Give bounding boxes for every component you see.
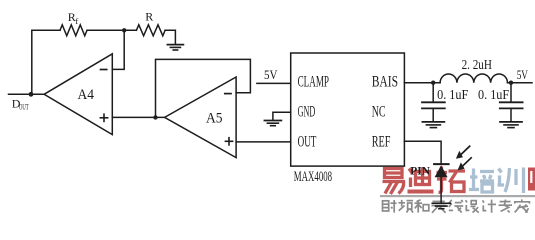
svg-text:CLAMP: CLAMP [298,74,329,91]
svg-text:OUT: OUT [298,133,317,150]
svg-text:5V: 5V [264,67,278,82]
svg-text:PIN: PIN [410,165,430,177]
svg-text:A5: A5 [206,110,223,126]
svg-text:f: f [75,16,78,26]
svg-text:OUT: OUT [19,103,29,112]
svg-text:2. 2uH: 2. 2uH [462,57,493,72]
svg-text:A4: A4 [78,87,95,103]
svg-text:0. 1uF: 0. 1uF [437,87,469,102]
svg-text:BAIS: BAIS [372,74,398,91]
svg-text:0. 1uF: 0. 1uF [478,87,510,102]
svg-text:5V: 5V [517,67,529,82]
svg-text:REF: REF [372,133,391,150]
svg-text:R: R [145,9,153,23]
svg-text:NC: NC [372,103,386,120]
svg-text:GND: GND [298,103,316,120]
svg-text:MAX4008: MAX4008 [294,169,332,185]
